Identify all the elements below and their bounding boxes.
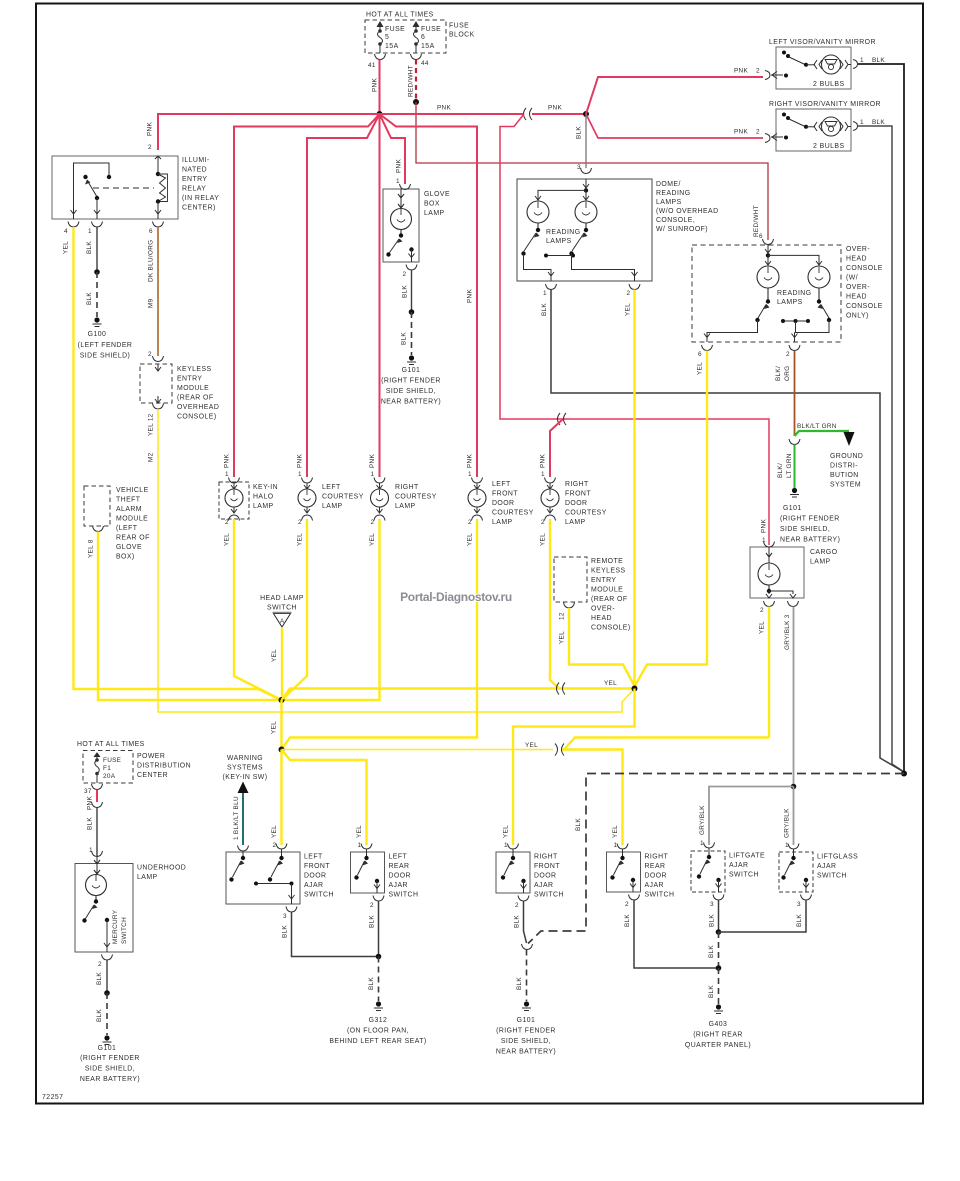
svg-text:AJAR: AJAR (304, 882, 323, 889)
svg-text:LEFT: LEFT (492, 481, 511, 488)
svg-text:OVERHEAD: OVERHEAD (177, 404, 219, 411)
svg-text:BUTION: BUTION (830, 472, 859, 479)
svg-text:YEL: YEL (467, 533, 474, 546)
svg-text:CENTER): CENTER) (182, 205, 216, 212)
svg-text:OVER-: OVER- (591, 606, 615, 613)
svg-text:3: 3 (710, 901, 714, 908)
wire YEL J1 to J2 (280, 700, 282, 750)
svg-text:(REAR OF: (REAR OF (591, 596, 628, 603)
svg-text:NEAR BATTERY): NEAR BATTERY) (496, 1049, 556, 1056)
svg-text:1: 1 (541, 471, 545, 478)
svg-text:3: 3 (797, 901, 801, 908)
svg-text:G100: G100 (88, 331, 107, 338)
svg-text:2: 2 (627, 290, 631, 297)
connector dome YEL2 (629, 284, 640, 290)
svg-text:PNK: PNK (396, 159, 403, 173)
svg-text:HEAD LAMP: HEAD LAMP (260, 595, 304, 602)
svg-text:YEL: YEL (759, 621, 766, 634)
svg-text:BLK: BLK (796, 914, 803, 927)
junction gry/blk (791, 784, 797, 790)
svg-text:PNK: PNK (540, 454, 547, 468)
underhood lamp bulb (86, 857, 107, 901)
overhead switch arms (704, 299, 831, 342)
svg-text:BLK: BLK (516, 977, 523, 990)
svg-text:YEL: YEL (625, 303, 632, 316)
splice on pink at cargo run (558, 413, 561, 425)
connector lf ajar BLK3 (286, 907, 297, 913)
cargo lamp bottom leads (766, 589, 796, 599)
svg-text:DOOR: DOOR (304, 873, 326, 880)
connector keyless YEL12 (153, 404, 164, 410)
svg-text:20A: 20A (103, 773, 116, 780)
connector glove BLK2 (406, 265, 417, 271)
svg-text:DOOR: DOOR (645, 873, 667, 880)
svg-text:BLK/: BLK/ (777, 463, 784, 478)
svg-text:FRONT: FRONT (492, 491, 518, 498)
splice )( on yel 749 (555, 744, 558, 756)
junction pink J-A (377, 111, 383, 117)
svg-text:KEYLESS: KEYLESS (591, 568, 626, 575)
svg-text:2: 2 (786, 351, 790, 358)
svg-text:6: 6 (698, 351, 702, 358)
svg-text:44: 44 (421, 60, 429, 67)
connector overhead BLK/ORG 2 (789, 345, 800, 351)
cargo lamp bulb (758, 547, 780, 591)
svg-text:2: 2 (148, 351, 152, 358)
connector rr ajar pin1 (617, 844, 628, 850)
ground G312 (329, 1001, 426, 1045)
svg-text:BLK: BLK (709, 914, 716, 927)
svg-text:FRONT: FRONT (565, 491, 591, 498)
connector remote keyless YEL12 (564, 603, 575, 609)
svg-text:SWITCH: SWITCH (817, 873, 847, 880)
power distribution center box (77, 741, 191, 783)
dome reading lamp bulb left (527, 201, 549, 229)
svg-text:YEL: YEL (540, 533, 547, 546)
svg-text:LT GRN: LT GRN (786, 453, 793, 478)
svg-text:LAMPS: LAMPS (546, 238, 572, 245)
key-in halo lamp (219, 454, 278, 546)
svg-text:(W/O OVERHEAD: (W/O OVERHEAD (656, 208, 719, 215)
svg-text:PNK: PNK (467, 289, 474, 303)
svg-text:OVER-: OVER- (846, 246, 870, 253)
wire YEL cargo down to yellow net (768, 607, 770, 738)
svg-text:FRONT: FRONT (304, 863, 330, 870)
svg-text:LEFT VISOR/VANITY MIRROR: LEFT VISOR/VANITY MIRROR (769, 39, 876, 46)
svg-text:READING: READING (777, 290, 812, 297)
svg-text:DISTRIBUTION: DISTRIBUTION (137, 763, 191, 770)
svg-text:BLK: BLK (872, 119, 885, 126)
svg-text:LAMP: LAMP (492, 519, 513, 526)
connector cargo pin1 (764, 542, 775, 548)
left rear door ajar switch box (351, 849, 419, 899)
svg-text:CENTER: CENTER (137, 772, 168, 779)
svg-text:UNDERHOOD: UNDERHOOD (137, 865, 186, 872)
overhead reading lamp bulb right (808, 266, 830, 300)
svg-text:YEL: YEL (271, 721, 278, 734)
junction dashed BLK right (901, 771, 907, 777)
svg-text:PNK: PNK (548, 105, 562, 112)
wire YEL left front door courtesy to junction2 (282, 519, 478, 750)
svg-text:(RIGHT FENDER: (RIGHT FENDER (381, 378, 441, 385)
svg-text:(ON FLOOR PAN,: (ON FLOOR PAN, (347, 1028, 409, 1035)
svg-text:DOOR: DOOR (534, 873, 556, 880)
junction pink J-B (583, 111, 589, 117)
svg-text:CONSOLE: CONSOLE (846, 265, 883, 272)
connector 44 (411, 54, 422, 60)
wire YEL overhead console to junction dot (635, 351, 708, 689)
splice dot on red/wht (413, 99, 419, 105)
svg-text:LAMP: LAMP (565, 519, 586, 526)
svg-text:LAMP: LAMP (395, 503, 416, 510)
fuse F1 20A (94, 753, 100, 783)
svg-text:(LEFT FENDER: (LEFT FENDER (78, 342, 133, 349)
relay actuating dashed link (93, 187, 154, 189)
wire PNK to junction J-B (532, 113, 586, 115)
svg-text:ILLUMI-: ILLUMI- (182, 157, 210, 164)
connector rf ajar pin1 (508, 844, 519, 850)
svg-text:G101: G101 (98, 1045, 117, 1052)
fuse block box (365, 12, 475, 54)
svg-text:SIDE SHIELD,: SIDE SHIELD, (780, 526, 830, 533)
svg-text:LAMP: LAMP (137, 874, 158, 881)
svg-text:G312: G312 (369, 1017, 388, 1024)
svg-text:LEFT: LEFT (322, 484, 341, 491)
vehicle theft alarm module box (84, 486, 150, 561)
svg-text:G101: G101 (517, 1017, 536, 1024)
wire YEL remote keyless to junction dot (569, 608, 635, 689)
svg-text:15A: 15A (421, 43, 435, 50)
svg-text:YEL: YEL (369, 533, 376, 546)
svg-text:FUSE: FUSE (449, 23, 469, 30)
wire YEL J1 to splice to junction dot (282, 689, 635, 701)
svg-text:1: 1 (88, 228, 92, 235)
svg-text:LAMPS: LAMPS (777, 299, 803, 306)
svg-text:(LEFT: (LEFT (116, 525, 138, 532)
svg-text:AJAR: AJAR (534, 882, 553, 889)
svg-text:RIGHT: RIGHT (534, 854, 558, 861)
right front door ajar switch box (496, 849, 564, 899)
wire BLK to underhood lamp (96, 808, 98, 857)
wire YEL right courtesy to junction1 (282, 519, 380, 700)
relay contact side (71, 163, 112, 219)
svg-text:GRY/BLK 3: GRY/BLK 3 (784, 614, 791, 650)
svg-text:2: 2 (625, 901, 629, 908)
svg-text:YEL: YEL (604, 680, 617, 687)
svg-text:YEL 12: YEL 12 (148, 413, 155, 436)
svg-text:HOT AT ALL TIMES: HOT AT ALL TIMES (366, 12, 434, 19)
svg-text:2: 2 (273, 842, 277, 849)
svg-text:2: 2 (541, 519, 545, 526)
svg-text:LAMP: LAMP (424, 210, 445, 217)
svg-text:1 BLK/LT BLU: 1 BLK/LT BLU (233, 796, 240, 840)
svg-text:72257: 72257 (42, 1094, 63, 1101)
svg-text:PNK: PNK (224, 454, 231, 468)
wire RED/WHT dashed from fuse6 (415, 60, 417, 103)
svg-text:READING: READING (546, 229, 581, 236)
right visor/vanity mirror (769, 101, 885, 151)
connector relay BLK1 (92, 222, 103, 228)
svg-text:BLK: BLK (708, 985, 715, 998)
svg-text:LEFT: LEFT (389, 854, 408, 861)
svg-text:2: 2 (756, 68, 760, 75)
svg-text:LAMP: LAMP (253, 503, 274, 510)
svg-text:2: 2 (370, 902, 374, 909)
svg-text:ENTRY: ENTRY (177, 376, 202, 383)
underhood mercury switch (82, 899, 128, 952)
junction yellow J2 (279, 747, 285, 753)
svg-text:BLK: BLK (96, 1009, 103, 1022)
dome reading lamp bulb right (575, 201, 597, 229)
svg-text:1: 1 (543, 290, 547, 297)
svg-text:BLK: BLK (708, 945, 715, 958)
svg-text:RED/WHT: RED/WHT (408, 65, 415, 97)
svg-text:REAR: REAR (645, 863, 666, 870)
wire BLK junctionB to dome pin3 (585, 114, 587, 168)
wire PNK cargo feeder (500, 114, 769, 545)
svg-text:REAR: REAR (389, 863, 410, 870)
arrow ground distribution system (844, 432, 855, 446)
svg-text:(REAR OF: (REAR OF (177, 395, 214, 402)
svg-text:BLK: BLK (401, 332, 408, 345)
svg-text:2: 2 (371, 519, 375, 526)
svg-text:HEAD: HEAD (846, 256, 867, 263)
svg-text:SIDE SHIELD,: SIDE SHIELD, (501, 1038, 551, 1045)
connector cargo GRY/BLK3 (788, 601, 799, 607)
wire PNK to glove box lamp (380, 114, 406, 184)
connector dome BLK1 (546, 284, 557, 290)
svg-text:1: 1 (358, 842, 362, 849)
connector rf ajar BLK2 (518, 896, 529, 902)
connector 37 (92, 784, 103, 790)
ground G101 glove (381, 355, 441, 405)
svg-text:BLOCK: BLOCK (449, 32, 475, 39)
svg-text:READING: READING (656, 190, 691, 197)
svg-text:RIGHT: RIGHT (645, 854, 669, 861)
connector overhead YEL6 (702, 345, 713, 351)
wire GRY/BLK cargo down (793, 607, 795, 787)
svg-text:BLK: BLK (541, 303, 548, 316)
keyless entry module box (140, 364, 219, 421)
wire YEL4 relay to junction1 (74, 227, 282, 700)
svg-text:BLK: BLK (575, 818, 582, 831)
svg-text:2 BULBS: 2 BULBS (813, 81, 845, 88)
svg-text:2: 2 (403, 271, 407, 278)
svg-text:GRY/BLK: GRY/BLK (784, 808, 791, 838)
ground G101 overhead (780, 488, 840, 544)
svg-text:SIDE SHIELD): SIDE SHIELD) (80, 353, 131, 360)
connector underhood pin1 (92, 851, 103, 857)
svg-text:BLK: BLK (624, 914, 631, 927)
svg-text:ONLY): ONLY) (846, 313, 869, 320)
svg-text:YEL: YEL (271, 649, 278, 662)
svg-text:NEAR BATTERY): NEAR BATTERY) (780, 537, 840, 544)
wire PNK to left courtesy lamp (307, 114, 380, 477)
wire YEL key-in halo to junction1 (234, 519, 282, 700)
svg-text:1: 1 (860, 119, 864, 126)
svg-text:PNK: PNK (87, 796, 94, 810)
wire PNK short (96, 790, 98, 803)
connector left visor pin2 (765, 71, 770, 80)
svg-text:BLK: BLK (282, 925, 289, 938)
svg-text:BLK/LT GRN: BLK/LT GRN (797, 423, 837, 430)
svg-text:SWITCH: SWITCH (534, 892, 564, 899)
svg-text:CARGO: CARGO (810, 549, 838, 556)
svg-text:PNK: PNK (467, 454, 474, 468)
left visor/vanity mirror (769, 39, 885, 89)
svg-text:NEAR BATTERY): NEAR BATTERY) (80, 1076, 140, 1083)
svg-text:DISTRI-: DISTRI- (830, 463, 858, 470)
svg-text:SWITCH: SWITCH (645, 892, 675, 899)
svg-text:CONSOLE): CONSOLE) (591, 625, 631, 632)
svg-text:COURTESY: COURTESY (395, 494, 437, 501)
wire BLK dome ground run to right side (551, 290, 904, 773)
svg-text:1: 1 (396, 178, 400, 185)
svg-text:SWITCH: SWITCH (267, 605, 297, 612)
svg-text:M2: M2 (148, 452, 155, 462)
svg-text:PNK: PNK (372, 78, 379, 92)
left front door courtesy lamp (467, 454, 534, 546)
svg-text:SWITCH: SWITCH (304, 892, 334, 899)
wire YEL keyless module to junction dot (158, 409, 635, 712)
wire YEL left courtesy to junction1 (282, 519, 308, 700)
fuse F5 15A (377, 22, 383, 53)
svg-text:PNK: PNK (734, 129, 748, 136)
svg-text:(IN RELAY: (IN RELAY (182, 195, 219, 202)
svg-text:RIGHT: RIGHT (395, 484, 419, 491)
svg-text:GLOVE: GLOVE (424, 191, 450, 198)
wire BLK/LT GRN branch to ground distribution (795, 431, 850, 436)
wire PNK to left front door courtesy lamp (380, 114, 478, 477)
svg-text:YEL: YEL (559, 631, 566, 644)
svg-text:NATED: NATED (182, 167, 207, 174)
svg-text:(KEY-IN SW): (KEY-IN SW) (223, 774, 268, 781)
svg-text:1: 1 (371, 471, 375, 478)
svg-text:RIGHT: RIGHT (565, 481, 589, 488)
svg-text:AJAR: AJAR (645, 882, 664, 889)
remote keyless entry module box (554, 557, 631, 632)
wire PNK to right front door courtesy lamp (550, 419, 563, 477)
svg-text:Portal-Diagnostov.ru: Portal-Diagnostov.ru (400, 590, 512, 604)
liftglass ajar switch box (779, 849, 858, 892)
fuse F6 15A (413, 22, 419, 53)
svg-text:POWER: POWER (137, 753, 165, 760)
ground G101 underhood (80, 1035, 140, 1083)
wire BLK glove box to G101 (411, 270, 413, 312)
svg-text:KEYLESS: KEYLESS (177, 366, 212, 373)
svg-text:37: 37 (84, 788, 92, 795)
svg-text:SWITCH: SWITCH (121, 917, 128, 944)
connector rr ajar BLK2 (629, 895, 640, 901)
underhood lamp box (75, 864, 186, 953)
right rear door ajar switch box (607, 849, 675, 899)
connector relay DK BLU/ORG 6 (153, 222, 164, 228)
svg-text:BLK: BLK (96, 972, 103, 985)
connector right visor pin2 (765, 134, 770, 143)
svg-text:CONSOLE,: CONSOLE, (656, 217, 695, 224)
svg-text:(RIGHT FENDER: (RIGHT FENDER (80, 1055, 140, 1062)
svg-text:ENTRY: ENTRY (591, 577, 616, 584)
svg-text:CONSOLE): CONSOLE) (177, 414, 217, 421)
svg-text:YEL: YEL (271, 825, 278, 838)
svg-text:2: 2 (468, 519, 472, 526)
overhead console box (692, 245, 883, 342)
wire YEL J2 to left front door ajar switch pin2 (280, 750, 282, 846)
cargo lamp box (750, 547, 838, 598)
svg-text:A: A (280, 619, 284, 625)
svg-text:SYSTEM: SYSTEM (830, 482, 861, 489)
splice (( on main pink (524, 108, 527, 120)
illuminated entry relay box (52, 156, 219, 219)
svg-text:COURTESY: COURTESY (492, 510, 534, 517)
wire RED/WHT thin run to overhead console (416, 102, 768, 240)
wire YEL splice to cargo lamp (564, 738, 769, 750)
svg-text:ORG: ORG (784, 366, 791, 381)
svg-text:DOME/: DOME/ (656, 181, 681, 188)
svg-text:4: 4 (64, 228, 68, 235)
svg-text:RIGHT VISOR/VANITY MIRROR: RIGHT VISOR/VANITY MIRROR (769, 101, 881, 108)
svg-text:GRY/BLK: GRY/BLK (699, 805, 706, 835)
svg-text:OVER-: OVER- (846, 284, 870, 291)
connector theft YEL8 (93, 526, 104, 532)
wire PNK to illuminated entry relay (158, 114, 380, 150)
svg-text:BLK: BLK (86, 292, 93, 305)
svg-text:YEL: YEL (356, 825, 363, 838)
svg-text:2: 2 (148, 144, 152, 151)
svg-text:COURTESY: COURTESY (565, 510, 607, 517)
svg-text:5: 5 (385, 34, 389, 41)
svg-text:2: 2 (298, 519, 302, 526)
connector 41 (375, 54, 386, 60)
junction yellow J1 (279, 697, 285, 703)
wire PNK to key-in halo lamp (234, 114, 380, 477)
warning systems arrow (223, 755, 268, 793)
svg-text:PNK: PNK (147, 122, 154, 136)
svg-text:BLK: BLK (87, 817, 94, 830)
wire BLK liftglass to junction (719, 900, 807, 932)
svg-text:ALARM: ALARM (116, 506, 142, 513)
connector underhood BLK2 (102, 955, 113, 961)
svg-text:LAMPS: LAMPS (656, 199, 682, 206)
svg-text:BEHIND LEFT REAR SEAT): BEHIND LEFT REAR SEAT) (329, 1038, 426, 1045)
svg-text:G101: G101 (783, 505, 802, 512)
wire YEL right front door courtesy to splice (550, 519, 559, 689)
connector keyless pin2 (153, 356, 164, 362)
svg-text:2: 2 (225, 519, 229, 526)
wire BLK rr ajar to G403 junction (634, 900, 719, 968)
svg-text:GROUND: GROUND (830, 453, 863, 460)
wire BLK underhood to G101 (106, 960, 108, 993)
svg-text:NEAR BATTERY): NEAR BATTERY) (381, 399, 441, 406)
wire BLK dashed rf ajar to G101 (526, 950, 528, 1002)
wire YEL J2 to left rear door ajar switch (282, 750, 367, 846)
svg-text:FRONT: FRONT (534, 863, 560, 870)
wire BLK liftgate down (718, 900, 720, 932)
wire BLK rf ajar down (524, 901, 527, 943)
junction yellow dot right (632, 686, 638, 692)
svg-text:AJAR: AJAR (389, 882, 408, 889)
svg-text:YEL 8: YEL 8 (88, 539, 95, 558)
svg-text:KEY-IN: KEY-IN (253, 484, 278, 491)
wire BLK dashed ground link (528, 774, 904, 944)
svg-text:VEHICLE: VEHICLE (116, 487, 149, 494)
svg-text:(RIGHT FENDER: (RIGHT FENDER (496, 1028, 556, 1035)
svg-text:PNK: PNK (369, 454, 376, 468)
svg-text:1: 1 (298, 471, 302, 478)
svg-text:YEL: YEL (503, 825, 510, 838)
svg-text:MERCURY: MERCURY (112, 909, 119, 944)
svg-text:BLK: BLK (369, 915, 376, 928)
